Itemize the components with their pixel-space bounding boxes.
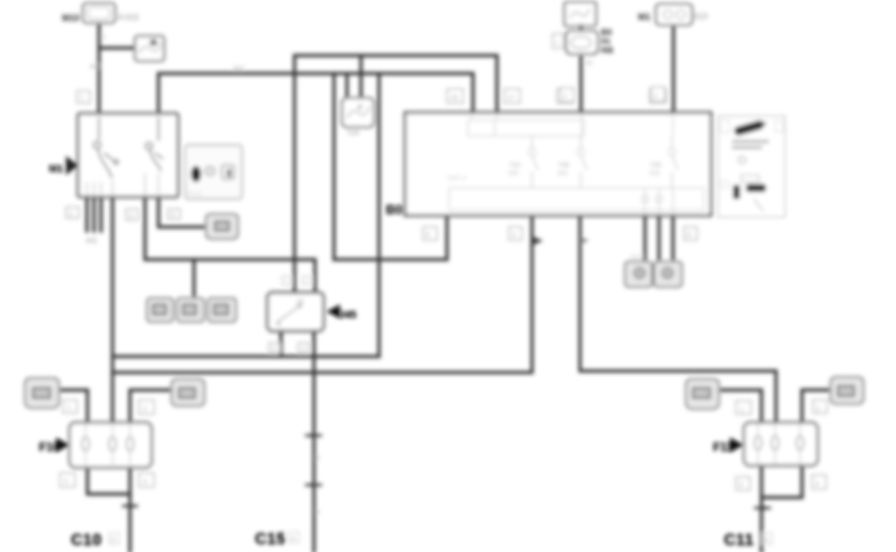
inline terminal arrow on wire to F10	[534, 237, 544, 246]
svg-text:0 1 2: 0 1 2	[188, 192, 202, 198]
battery label block B001	[601, 27, 613, 55]
wire ground stub 1	[85, 197, 88, 232]
svg-text:AB: AB	[601, 45, 613, 55]
wire fuse lead right	[359, 56, 362, 99]
component pointer F11	[713, 438, 744, 455]
socket pod a (B001 bottom)	[625, 262, 652, 288]
connector M10 (top right)	[638, 4, 708, 25]
svg-text:3: 3	[301, 346, 305, 353]
pin box relay out left	[269, 343, 280, 353]
pin box 3	[126, 209, 138, 220]
wire F11 right pod feed	[802, 390, 831, 423]
svg-text:C11: C11	[724, 532, 754, 549]
inline terminal arrow on wire to F11	[582, 237, 590, 244]
svg-text:A: A	[764, 537, 769, 544]
svg-text:A: A	[291, 536, 296, 543]
pod connector F10 left	[25, 378, 59, 408]
wire relay output to C15	[312, 331, 315, 552]
svg-text:2: 2	[563, 94, 567, 101]
svg-text:M1: M1	[638, 12, 651, 22]
svg-text:0.5: 0.5	[558, 170, 567, 177]
triple ground socket 1	[147, 298, 173, 322]
wire bus left to B001 pin (with inline connector)	[113, 215, 533, 373]
svg-text:4: 4	[512, 232, 516, 239]
svg-text:30: 30	[585, 60, 593, 67]
component pointer M1	[49, 156, 78, 175]
svg-text:C10: C10	[71, 532, 102, 549]
pin box battery	[553, 34, 564, 48]
svg-text:+: +	[555, 40, 559, 47]
socket pod b (B001 bottom)	[654, 262, 682, 288]
wire switch pin to pod connector	[159, 197, 207, 228]
svg-text:M10: M10	[62, 13, 80, 23]
wire drop from bus B to node y260	[332, 74, 335, 260]
connector label C10	[71, 532, 119, 549]
svg-text:8: 8	[687, 232, 691, 239]
ignition switch box M1	[78, 114, 178, 198]
svg-text:2: 2	[816, 406, 820, 413]
wire F11 left pod feed	[717, 390, 762, 423]
wire switch pin down to F10	[111, 197, 114, 423]
pin box B001 bottom pin 2	[509, 227, 522, 240]
wire fuse lead left	[345, 74, 348, 99]
svg-text:3: 3	[739, 482, 743, 489]
svg-text:17: 17	[507, 95, 515, 102]
lamp cluster F11	[744, 423, 818, 466]
triple ground socket 3	[208, 298, 236, 322]
pin box 1 (switch top pin)	[77, 91, 90, 103]
component pointer F10	[39, 438, 70, 455]
wire bus A (node to B001 pin)	[295, 56, 498, 293]
svg-text:0.5: 0.5	[650, 170, 659, 177]
wire horizontal y357	[113, 355, 380, 358]
pin box B001 top pin 1	[447, 89, 463, 103]
wire B001 bottom pin c	[671, 215, 674, 259]
pin box F10 out left	[60, 473, 75, 487]
connector label C15	[255, 531, 299, 548]
fuse F1 (inline, center top)	[342, 98, 374, 137]
wire battery B to B001	[579, 57, 582, 112]
fuse holder symbol (top left)	[135, 36, 164, 61]
legend panel (right of B001)	[718, 116, 785, 217]
wire junction to triple socket	[192, 260, 195, 299]
pin box F10 out right	[139, 473, 154, 487]
wire B001 bottom pin b	[657, 215, 660, 259]
svg-text:2: 2	[143, 406, 147, 413]
wire F10 to C10	[128, 467, 131, 552]
svg-text:4: 4	[171, 212, 175, 219]
pin box F10 in right	[139, 400, 154, 414]
wire ground stub 2	[92, 197, 95, 232]
svg-text:T05: T05	[650, 162, 662, 169]
wire drop from bus B to node y357	[377, 74, 380, 357]
switch contact left	[94, 117, 119, 178]
pin box battery wire	[560, 88, 574, 102]
component pointer J45	[327, 305, 357, 322]
connector G1 (top left supply)	[62, 3, 139, 23]
battery node B (top)	[565, 2, 608, 54]
svg-text:4: 4	[143, 479, 147, 486]
svg-text:C15: C15	[255, 531, 286, 548]
pod connector (switch to body)	[206, 214, 238, 239]
svg-text:3: 3	[129, 213, 133, 220]
pin box F10 in left	[63, 400, 77, 413]
wire F10 right pod feed	[130, 390, 172, 423]
svg-text:J45: J45	[339, 309, 357, 321]
pod connector F10 right	[172, 379, 205, 406]
wire relay output left to y357	[279, 331, 282, 357]
svg-text:18: 18	[450, 95, 458, 102]
pin box B001 top pin 3	[557, 89, 573, 103]
svg-text:1: 1	[654, 93, 658, 100]
svg-text:T10: T10	[509, 162, 521, 169]
svg-text:INT: INT	[90, 64, 102, 71]
splice tick C15 wire lower	[305, 482, 322, 487]
splice tick C10 wire	[122, 503, 138, 508]
pin box top connector wire	[651, 87, 665, 101]
pin box B001 bottom pin 3	[684, 227, 697, 240]
pin box B001 bottom pin 1	[423, 227, 437, 240]
pin box 4	[168, 209, 180, 219]
svg-text:013: 013	[694, 12, 708, 21]
svg-text:D001: D001	[630, 255, 645, 261]
svg-text:B0: B0	[386, 202, 403, 217]
svg-text:C001 A: C001 A	[447, 176, 467, 182]
pin box relay top left	[282, 276, 291, 285]
connector label C11	[724, 532, 772, 549]
svg-text:1: 1	[740, 407, 744, 414]
svg-text:1: 1	[80, 95, 84, 102]
pod connector F11 right	[831, 377, 864, 404]
wire B001 pin right down to F11	[580, 215, 776, 423]
wire B001 bottom pin a	[643, 215, 646, 259]
svg-text:3: 3	[64, 479, 68, 486]
switch box internal wires (faint)	[87, 173, 159, 195]
pod connector F11 left	[686, 379, 719, 409]
svg-text:T08: T08	[558, 162, 570, 169]
pin box F11 in right	[813, 400, 827, 413]
wire F11 bottom bridge	[762, 466, 803, 498]
svg-text:A 013: A 013	[118, 13, 139, 22]
pin box B001 top pin 4	[650, 89, 666, 103]
svg-text:1: 1	[67, 405, 71, 412]
key position legend box	[185, 145, 242, 199]
relay J45	[268, 293, 324, 332]
pin box F11 in left	[736, 401, 751, 414]
svg-text:6: 6	[426, 232, 430, 239]
lamp cluster F10	[70, 423, 152, 468]
svg-text:5: 5	[272, 346, 276, 353]
svg-text:A: A	[111, 537, 116, 544]
splice tick C11 wire	[754, 505, 771, 510]
wire ground stub 3	[99, 197, 102, 232]
svg-text:M1: M1	[49, 164, 63, 175]
wire bus B (switch pin INT to node B001 pin)	[159, 74, 474, 116]
wire F10 bottom bridge	[88, 467, 131, 494]
pin box 2	[66, 207, 79, 218]
svg-text:1: 1	[102, 34, 106, 41]
svg-text:N: N	[315, 509, 320, 516]
svg-text:INT: INT	[233, 66, 245, 73]
svg-text:2: 2	[69, 211, 73, 218]
svg-text:0.5: 0.5	[509, 170, 518, 177]
wire top connector to B001	[672, 22, 675, 112]
svg-text:4: 4	[815, 481, 819, 488]
pin box relay out right	[298, 343, 309, 353]
wire node y260 right segment to B001	[334, 215, 447, 260]
pin box F11 out left	[736, 477, 750, 490]
svg-text:N: N	[315, 455, 320, 462]
wire battery-G to switch-box pin 1	[97, 23, 100, 115]
wire branch to fuse symbol	[99, 46, 135, 49]
B001 internal labels (faint)	[509, 162, 662, 177]
svg-text:F: F	[358, 105, 363, 112]
svg-text:m1: m1	[86, 236, 98, 245]
svg-text:10A: 10A	[347, 130, 360, 137]
wire F10 left pod feed	[59, 390, 88, 423]
pin box relay top right	[302, 276, 311, 285]
body computer B001 box	[405, 113, 711, 216]
svg-text:30: 30	[297, 299, 304, 305]
switch contact right	[146, 117, 164, 171]
pin box B001 top pin 2	[504, 89, 520, 103]
wire F11 to C11	[760, 466, 763, 552]
wire switch pin to relay J45 coil	[145, 197, 315, 293]
pin box F11 out right	[812, 475, 826, 489]
splice tick C15 wire upper	[305, 433, 322, 438]
triple ground socket 2	[177, 298, 204, 322]
B001 internal circuit (faint)	[449, 114, 704, 214]
